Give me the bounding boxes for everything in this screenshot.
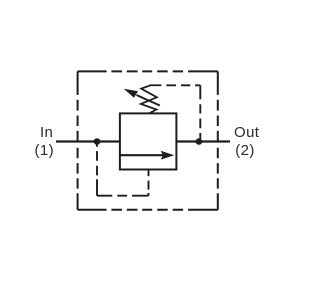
pilot line: under envelope vertical dashed [148,170,150,196]
svg-text:(1): (1) [35,142,55,159]
svg-text:(2): (2) [235,142,255,159]
pilot line: bottom horizontal dashed [97,195,149,197]
adjustment arrow across spring [137,95,160,106]
pilot line: In node down (vertical dashed) [96,142,98,196]
enclosure bottom dashed edge [78,209,218,211]
enclosure right dashed edge [217,71,219,209]
enclosure left dashed edge [77,71,79,209]
spring (zigzag) [141,85,162,113]
flow-path arrow inside envelope [120,154,166,156]
valve envelope square [120,113,176,169]
svg-text:Out: Out [234,124,260,141]
svg-text:In: In [40,124,53,141]
node: In junction dot [94,138,101,145]
pilot line: spring top to Out node (horizontal dashed) [161,84,200,86]
pilot line: vertical dashed down to Out node [199,85,201,141]
wire: In line [56,140,120,142]
node: Out junction dot [196,138,203,145]
wire: Out line [176,140,230,142]
enclosure top dashed edge [78,70,218,72]
